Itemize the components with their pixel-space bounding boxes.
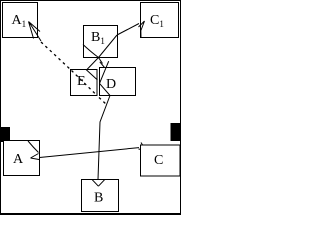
box C [141,145,180,176]
wire dashed below E [99,98,107,106]
svg-text:C: C [154,153,163,168]
arrowhead into B [92,180,104,186]
arrowhead into C [139,143,147,151]
arrowhead into A1 [29,22,42,42]
black bar left [0,127,10,142]
border frame [1,1,181,214]
wire through E corner [86,70,98,81]
wire dashed E to A1 [41,42,71,70]
svg-text:D: D [106,77,116,92]
wire A to C stubs [40,148,140,158]
box A [4,141,40,176]
svg-text:A: A [13,152,24,167]
arrowhead into E [85,70,92,74]
box E [71,70,98,96]
box B [82,180,119,212]
box A1 [3,3,38,38]
box D [100,68,136,96]
arrowhead into C1 [139,21,145,38]
svg-text:B: B [94,191,103,206]
arrowhead into D [100,62,105,68]
box C1 [141,3,179,38]
wire crossing at gap [100,61,111,95]
border bottom thick [0,213,181,215]
box B1 [84,26,118,58]
wire D to B upper stub [98,96,110,180]
wire B1 to C1 stub [117,24,139,36]
wire B1 to E [87,58,99,71]
wire dashed through E [72,71,97,96]
black bar right [171,123,182,141]
wire B1 to D [99,58,103,64]
wire B1 right V [99,35,118,58]
arrowhead into A [31,154,40,160]
wire A curve top [28,141,39,153]
svg-text:E: E [77,74,86,89]
wire B1 left V [83,45,99,58]
